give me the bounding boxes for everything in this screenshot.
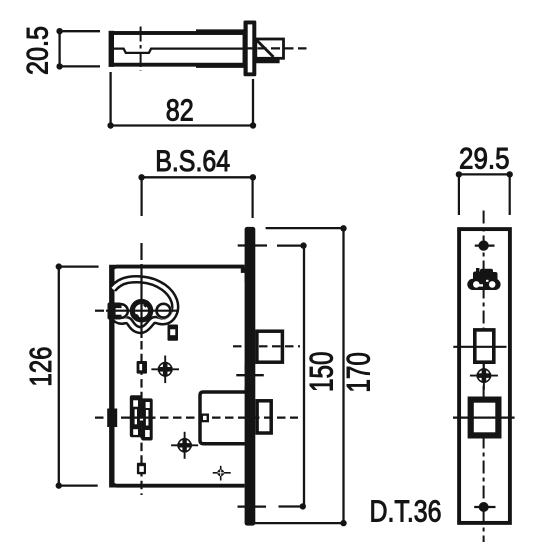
body inner step line: [114, 49, 244, 53]
stop hole (small rect right of cylinder): [168, 325, 179, 341]
latch centerline: [95, 417, 298, 419]
faceplate (front view): [245, 227, 256, 526]
main vertical centerline: [140, 243, 142, 495]
faceplate tab above latch: [245, 387, 251, 394]
bottom mounting screw: [474, 502, 495, 512]
cylinder set screw (phillips): [470, 362, 498, 390]
faceplate (top view, edge-on): [244, 21, 257, 77]
svg-text:150: 150: [304, 352, 340, 393]
lock case outline: [112, 265, 247, 488]
latch bolt (top view): [256, 39, 284, 63]
stamped logo blob: [467, 268, 500, 290]
dim B.S.64: [138, 174, 256, 218]
cylinder bore: [132, 302, 150, 320]
screw hole 1 (phillips): [151, 356, 179, 384]
dim 20.5 line: [56, 28, 100, 70]
side view centerline: [483, 211, 485, 543]
svg-text:D.T.36: D.T.36: [370, 493, 442, 528]
faceplate tab below deadbolt: [245, 364, 251, 371]
latch inner square: [200, 414, 209, 423]
case left edge bump at follower level: [107, 409, 117, 428]
dim 170: [255, 225, 347, 526]
body vertical centerline: [140, 27, 142, 72]
deadbolt centerline: [233, 345, 300, 347]
svg-text:B.S.64: B.S.64: [155, 145, 230, 178]
deadbolt tick line: [453, 346, 506, 348]
dim 150: [238, 242, 307, 509]
svg-text:126: 126: [23, 347, 58, 387]
svg-text:82: 82: [166, 93, 194, 128]
cylinder horizontal centerline: [95, 310, 179, 312]
screw hole 2 (phillips): [171, 432, 198, 459]
faceplate cut tick: [236, 374, 263, 376]
faceplate outline (side view): [459, 229, 510, 523]
svg-text:170: 170: [341, 352, 377, 393]
dim 29.5: [456, 171, 513, 215]
latch centerline (dashed): [244, 47, 307, 49]
deadbolt (protruding): [257, 331, 283, 362]
latch bolt (protruding): [257, 401, 271, 433]
dim 82 line: [107, 72, 256, 129]
follower hub stack: [129, 395, 154, 440]
svg-text:29.5: 29.5: [459, 143, 510, 176]
latch opening (thick square): [471, 400, 499, 436]
small screw hole (bottom right of case): [213, 466, 231, 481]
cylinder left lug tab: [108, 303, 130, 320]
svg-text:20.5: 20.5: [22, 26, 55, 75]
top mounting screw: [475, 240, 495, 250]
cylinder outer contour (double line): [113, 279, 175, 330]
dim 126: [56, 263, 99, 488]
lock body (top view): [111, 31, 245, 67]
cylinder right lug ring: [155, 302, 172, 319]
small square hole upper (on centerline): [137, 361, 147, 374]
latch tick line: [453, 417, 515, 419]
small square hole lower (on centerline): [137, 463, 146, 475]
latch housing: [200, 392, 248, 444]
deadbolt opening: [475, 330, 494, 362]
